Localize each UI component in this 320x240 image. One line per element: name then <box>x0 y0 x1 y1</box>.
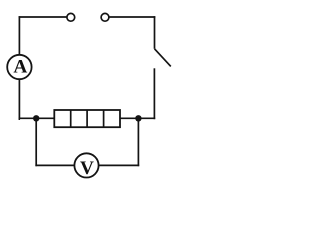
node: left junction dot <box>33 115 39 121</box>
terminal (left binding post) <box>67 13 75 21</box>
wire: bottom horizontal, left segment to voltmeter <box>35 164 74 166</box>
wire: left vertical drop from junction to bottom wire <box>35 118 37 166</box>
ammeter A <box>7 55 31 79</box>
wire: right vertical, top corner down to switch <box>154 16 156 49</box>
wire: left vertical, top corner down to ammeter <box>18 16 20 54</box>
svg-text:V: V <box>80 158 94 179</box>
wire: right vertical drop from junction to bottom wire <box>137 118 139 166</box>
wire: middle horizontal, resistance box to right corner <box>120 117 155 119</box>
voltmeter V <box>74 153 98 179</box>
wire: bottom horizontal, voltmeter to right segment <box>99 164 140 166</box>
wire: middle horizontal, left corner to resistance box <box>19 117 55 119</box>
wire: top-right horizontal segment <box>109 16 155 18</box>
terminal (right binding post) <box>101 13 109 21</box>
switch S (open blade) <box>155 49 171 67</box>
wire: top-left horizontal segment <box>19 16 67 18</box>
wire: left vertical, ammeter down to bottom-left corner <box>18 79 21 119</box>
svg-text:A: A <box>13 57 27 78</box>
resistance box R (4-cell rectangle) <box>54 110 120 127</box>
wire: right vertical, switch lower contact down to corner <box>153 68 155 119</box>
node: right junction dot <box>135 115 141 121</box>
